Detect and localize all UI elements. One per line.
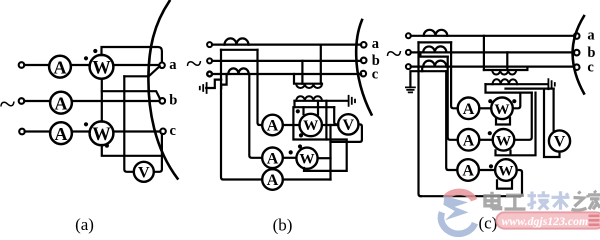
wire CT1 secondary right to A1 row (c) <box>451 42 458 108</box>
CT1 primary coil (b) <box>225 38 249 44</box>
CT2 secondary bar (c) <box>420 52 447 56</box>
terminal left 3 (c) <box>406 64 411 69</box>
svg-text:W: W <box>92 59 111 79</box>
wire phase-1 (c) <box>411 35 574 37</box>
wattmeter W1 (b) <box>300 114 322 136</box>
svg-text:A: A <box>55 124 68 144</box>
CT2 primary coil (c) <box>423 46 446 52</box>
wire W2 voltage loop (b) <box>293 107 346 171</box>
wire A1-W1 (b) <box>283 124 299 126</box>
dot polarity W1 current <box>84 56 88 60</box>
wire A2-W2 (c) <box>479 139 492 141</box>
wire W2 bottom voltage <box>102 145 162 156</box>
terminal left bottom (a) <box>19 129 25 135</box>
svg-text:A: A <box>267 172 279 189</box>
wire CT3 secondary right to A3 row (c) <box>446 71 457 170</box>
svg-text:W: W <box>498 163 513 180</box>
svg-text:A: A <box>267 150 279 167</box>
PT primary coil (b) <box>296 84 322 88</box>
W3 voltage stub box (c) <box>497 180 512 188</box>
watermark char ji <box>528 191 550 209</box>
dot polarity W1 voltage <box>93 49 97 53</box>
svg-text:c: c <box>587 60 594 76</box>
ammeter A3 <box>50 122 72 144</box>
wire bus2 down to V top (c) <box>552 89 554 132</box>
wire A3-W3 (c) <box>479 169 495 171</box>
svg-text:V: V <box>554 134 566 151</box>
watermark char gong <box>505 195 526 209</box>
svg-text:W: W <box>494 101 509 118</box>
logo blue bottom arc <box>441 212 475 233</box>
wire voltmeter branch vertical <box>124 76 134 172</box>
svg-text:c: c <box>372 66 379 82</box>
dot polarity W2 voltage <box>105 144 109 148</box>
watermark char jia <box>588 191 600 210</box>
wire W1 to terminal a <box>113 64 159 66</box>
wire W2 right to return (b) <box>318 157 331 159</box>
svg-text:W: W <box>496 132 511 149</box>
svg-text:(c): (c) <box>478 214 497 233</box>
wattmeter W2 <box>90 121 114 145</box>
dot polarity W1b bottom <box>299 133 303 137</box>
wire A1 to W1 <box>71 64 90 66</box>
svg-text:c: c <box>170 123 177 139</box>
PT riser from phase-2 (b) <box>301 61 303 84</box>
wire W1-V (b) <box>322 124 338 126</box>
ammeter A1 (c) <box>458 98 480 120</box>
svg-text:(a): (a) <box>75 215 94 234</box>
wire terminal c down to voltmeter <box>154 134 162 172</box>
CT1 secondary bar (c) <box>419 41 452 43</box>
dot polarity W3c left <box>489 164 493 168</box>
terminal a (c) <box>574 33 580 39</box>
wire PT to W1 voltage stubs <box>304 101 319 115</box>
ammeter A2 <box>50 92 72 114</box>
terminal a (b) <box>361 42 367 48</box>
wattmeter W1 (c) <box>491 98 513 120</box>
svg-text:A: A <box>463 101 475 118</box>
svg-text:a: a <box>587 28 595 44</box>
wire bus3 down to W2 right (c) <box>515 93 532 140</box>
ground right (b) <box>349 96 355 106</box>
wire A3 to W2 <box>72 130 90 132</box>
wire phase-2 (b) <box>212 60 361 62</box>
wattmeter W2 (c) <box>493 129 515 151</box>
PT secondary wire to right ground (c) <box>486 83 548 85</box>
dot polarity W2 current <box>84 122 88 126</box>
wire bottom return (c) <box>421 195 520 197</box>
ammeter A2 (b) <box>262 148 283 169</box>
ammeter A1 (b) <box>262 115 283 136</box>
CT1 primary coil (c) <box>424 30 448 36</box>
svg-text:~: ~ <box>386 38 402 71</box>
wire W1 voltage top loop to a <box>102 47 162 62</box>
terminal a (a) <box>159 63 165 69</box>
terminal left 2 (b) <box>207 58 212 63</box>
svg-text:W: W <box>303 117 318 134</box>
svg-text:a: a <box>372 36 380 52</box>
PT primary bar (c) <box>484 67 528 70</box>
svg-text:A: A <box>462 163 474 180</box>
PT secondary coil (b) <box>296 96 322 101</box>
terminal b (c) <box>574 50 580 56</box>
PT secondary lower wire <box>295 101 335 107</box>
PT secondary coil (c) <box>493 79 518 84</box>
wire CT2 secondary right to A2 row (c) <box>448 57 458 140</box>
wire A3 right to return (b) <box>283 178 330 180</box>
load curve (a) <box>148 1 177 179</box>
voltmeter V (b) <box>338 114 358 134</box>
wire phase-a to A1 <box>24 64 49 66</box>
CT1 secondary bar (b) <box>221 49 258 51</box>
ammeter A2 (c) <box>458 129 480 151</box>
wire phase-3 (c) <box>411 65 574 67</box>
logo blue zigzag <box>443 196 468 220</box>
wire V right return <box>331 124 362 141</box>
CT3 primary coil (c) <box>423 61 446 67</box>
PT secondary bus2 (c) <box>506 87 554 89</box>
svg-text:A: A <box>55 93 68 113</box>
ammeter A3 (b) <box>262 169 283 190</box>
ammeter A1 <box>49 56 71 78</box>
wattmeter W3 (c) <box>495 159 517 181</box>
wire current return vertical (b) <box>329 125 331 180</box>
PT riser from phase-1 (b) <box>320 45 322 84</box>
wire phase-2 (c) <box>411 51 574 53</box>
watermark char dian <box>485 192 501 209</box>
W1 voltage stub box (c) <box>496 118 510 125</box>
logo pink top arc <box>446 192 474 200</box>
PT riser from phase-1 (c) <box>483 36 485 70</box>
PT secondary wire to right ground <box>295 100 348 102</box>
svg-text:V: V <box>138 165 150 182</box>
ground left (b) <box>200 83 207 93</box>
wattmeter W2 (b) <box>296 148 317 169</box>
terminal c (b) <box>361 71 367 77</box>
terminal left 2 (c) <box>406 50 411 55</box>
wire h2 drop to V left (b) <box>334 107 338 124</box>
wire W1 bottom to W2 top <box>101 79 103 122</box>
wire A2 to terminal b <box>72 100 160 102</box>
wire A1-W1 (c) <box>479 107 491 109</box>
dot polarity W2b top <box>298 144 302 148</box>
dot polarity W2b left <box>289 150 293 154</box>
PT primary bar (b) <box>294 74 322 84</box>
terminal left top (a) <box>19 62 25 68</box>
svg-text:b: b <box>169 93 177 109</box>
terminal left 3 (b) <box>207 72 212 77</box>
svg-text:A: A <box>267 118 279 135</box>
load curve (b) <box>356 20 371 115</box>
PT secondary bus3 (c) <box>486 84 532 92</box>
CT3 primary coil (b) <box>228 68 248 74</box>
watermark char zhi <box>572 192 587 211</box>
wire CT3 secondary down to A2 row <box>249 74 261 158</box>
svg-text:a: a <box>169 57 177 73</box>
wire A2-W2 (b) <box>283 157 296 159</box>
watermark char shu <box>552 191 570 209</box>
CT3 secondary bar (c) <box>422 67 446 72</box>
wire CT1 secondary left down to return (c) <box>419 42 421 196</box>
svg-text:(b): (b) <box>273 215 293 234</box>
voltmeter V (a) <box>134 162 154 182</box>
wattmeter W1 <box>90 55 114 79</box>
terminal left 1 (c) <box>406 33 411 38</box>
svg-text:W: W <box>299 150 314 167</box>
wire bus3 down to W1 right (c) <box>514 93 520 109</box>
svg-text:~: ~ <box>0 88 16 121</box>
svg-text:~: ~ <box>186 48 202 81</box>
wire CT3 tap to ground <box>206 74 226 88</box>
svg-text:A: A <box>54 57 67 77</box>
wire W2 to terminal c <box>113 130 160 132</box>
load curve (c) <box>573 16 584 94</box>
PT primary coil (c) <box>492 70 516 75</box>
W2 voltage stub (c) <box>496 93 536 156</box>
wire phase-3 (b) <box>212 73 361 75</box>
terminal left mid (a) <box>19 98 25 104</box>
watermark menu bars <box>589 216 600 225</box>
ammeter A3 (c) <box>457 159 479 181</box>
terminal b (b) <box>361 58 367 64</box>
wire W1 voltage to terminal b <box>102 91 160 99</box>
wire W3 right down to return (c) <box>517 170 522 196</box>
dot polarity W2c left <box>488 131 492 135</box>
ground left (c) <box>406 87 415 92</box>
wire V bottom loop (c) <box>544 89 560 157</box>
terminal c (a) <box>160 129 166 135</box>
watermark url box <box>496 212 600 228</box>
terminal left 1 (b) <box>207 42 212 47</box>
terminal c (c) <box>574 64 580 70</box>
ground left stub (c) <box>410 71 422 87</box>
voltmeter V (c) <box>549 130 570 151</box>
dot polarity W1c right <box>512 99 516 103</box>
wire branch to terminal a diagonal <box>124 66 159 76</box>
dot polarity W1b top <box>296 109 300 113</box>
PT riser from phase-2 (c) <box>506 52 508 70</box>
wire CT1 secondary right down to A1 row <box>258 50 262 125</box>
wire phase-1 (b) <box>212 43 361 45</box>
dot polarity W1c left <box>488 99 492 103</box>
svg-text:V: V <box>343 117 355 134</box>
wire phase-c to A3 <box>25 130 51 132</box>
svg-text:A: A <box>463 133 475 150</box>
svg-text:W: W <box>92 125 111 145</box>
terminal b (a) <box>160 98 166 104</box>
svg-text:www.dgjs123.com: www.dgjs123.com <box>502 214 589 228</box>
ground right (c) <box>548 79 554 89</box>
wire CT1 secondary left down to A3 row <box>221 50 262 180</box>
wire h1 drop to W2 loop (b) <box>325 101 327 140</box>
wire phase-b to A2 <box>24 100 50 102</box>
